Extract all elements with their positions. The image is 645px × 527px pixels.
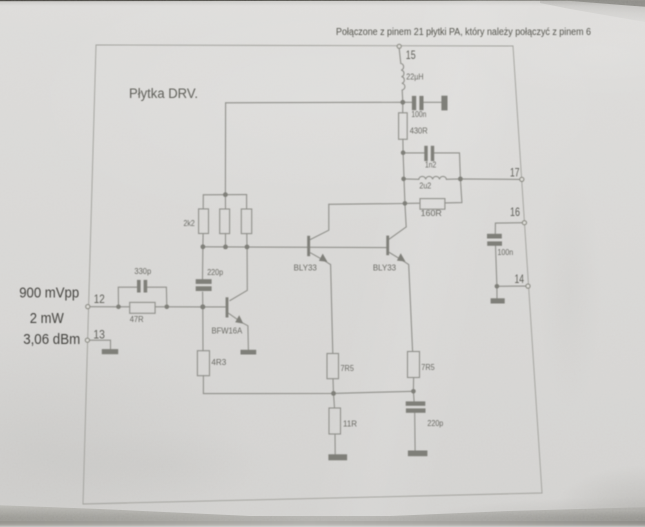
svg-text:1n2: 1n2 [425, 160, 437, 170]
svg-text:3,06 dBm: 3,06 dBm [23, 331, 80, 348]
svg-text:4R3: 4R3 [211, 357, 226, 367]
svg-text:BLY33: BLY33 [294, 263, 318, 273]
svg-text:2 mW: 2 mW [30, 310, 65, 327]
svg-text:330p: 330p [134, 266, 151, 276]
svg-text:17: 17 [510, 167, 520, 179]
svg-text:47R: 47R [130, 314, 144, 324]
svg-text:14: 14 [515, 274, 525, 286]
svg-text:7R5: 7R5 [341, 363, 355, 373]
svg-text:22µH: 22µH [406, 72, 423, 82]
svg-text:BFW16A: BFW16A [212, 326, 243, 336]
svg-text:13: 13 [93, 329, 105, 341]
svg-text:7R5: 7R5 [421, 362, 435, 372]
svg-text:2u2: 2u2 [419, 181, 431, 191]
svg-text:220p: 220p [207, 267, 223, 277]
svg-text:16: 16 [510, 207, 520, 219]
svg-text:100n: 100n [498, 247, 514, 257]
svg-text:15: 15 [406, 50, 416, 62]
svg-text:BLY33: BLY33 [373, 263, 397, 273]
svg-text:160R: 160R [421, 208, 442, 218]
svg-text:2k2: 2k2 [184, 218, 196, 228]
svg-text:12: 12 [94, 294, 105, 306]
svg-text:220p: 220p [427, 418, 443, 428]
svg-text:11R: 11R [343, 419, 357, 429]
svg-text:Płytka DRV.: Płytka DRV. [129, 86, 198, 102]
svg-text:430R: 430R [410, 126, 428, 136]
svg-text:100n: 100n [411, 109, 426, 119]
svg-text:900 mVpp: 900 mVpp [19, 284, 79, 301]
svg-text:Połączone z pinem 21 płytki PA: Połączone z pinem 21 płytki PA, który na… [336, 27, 591, 38]
